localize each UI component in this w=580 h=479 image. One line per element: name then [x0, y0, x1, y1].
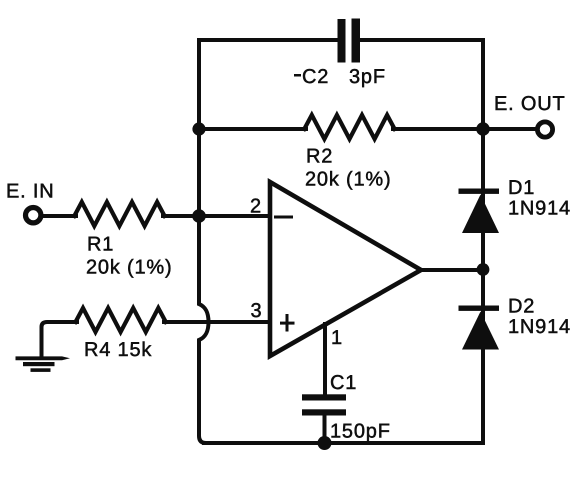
wire C1 to bottom rail	[323, 415, 327, 443]
wire op-amp output	[419, 268, 483, 272]
capacitor C1	[302, 394, 346, 415]
svg-text:1N914: 1N914	[508, 316, 571, 338]
wire E.OUT	[483, 127, 536, 131]
op-amp U1 triangle	[270, 182, 421, 356]
wire R2 to output node	[393, 127, 483, 131]
wire op-amp pin 1 to C1	[323, 324, 327, 395]
wire E.IN to R1	[43, 214, 76, 218]
wire top rail right segment	[360, 38, 483, 42]
plus sign non-inverting input	[280, 314, 295, 332]
wire R4 to op-amp pin 3	[164, 320, 270, 324]
wire R2 feedback wire	[199, 127, 306, 131]
wire ground riser to R4	[42, 322, 78, 357]
node junction dot E.OUT	[476, 122, 490, 136]
minus sign inverting input	[274, 216, 293, 219]
node junction dot output	[477, 263, 490, 276]
wire bottom rail	[204, 441, 483, 445]
svg-text:3pF: 3pF	[349, 66, 386, 88]
svg-text:D2: D2	[508, 296, 535, 318]
resistor R2	[304, 115, 394, 139]
svg-text:R4 15k: R4 15k	[84, 339, 152, 361]
svg-text:E. OUT: E. OUT	[494, 93, 565, 115]
diode D2	[459, 306, 500, 350]
svg-text:20k (1%): 20k (1%)	[305, 169, 391, 191]
svg-text:1: 1	[331, 327, 343, 349]
wire top rail left segment	[199, 38, 338, 42]
stray mark dash left of C2	[294, 74, 301, 77]
resistor R1	[74, 202, 164, 226]
svg-text:1N914: 1N914	[508, 198, 571, 220]
svg-text:150pF: 150pF	[330, 421, 391, 443]
resistor R4	[76, 308, 166, 332]
node junction dot R2 left	[192, 122, 205, 135]
terminal E.OUT circle	[537, 122, 552, 137]
node junction dot C1 bottom	[318, 436, 332, 450]
diode D1	[459, 189, 500, 234]
node junction dot inverting input	[192, 209, 206, 223]
svg-text:C1: C1	[330, 372, 357, 394]
svg-text:20k (1%): 20k (1%)	[86, 257, 172, 279]
wire left vertical with hop over pin3 wire and rounded corner to bottom rail	[199, 40, 209, 443]
wire R1 to op-amp pin 2	[163, 214, 270, 218]
ground	[16, 356, 71, 372]
svg-text:D1: D1	[508, 177, 535, 199]
svg-text:3: 3	[251, 300, 263, 322]
svg-text:R2: R2	[306, 146, 333, 168]
svg-text:R1: R1	[87, 234, 114, 256]
svg-text:E. IN: E. IN	[6, 181, 54, 203]
svg-text:2: 2	[250, 196, 262, 218]
svg-text:C2: C2	[302, 66, 329, 88]
capacitor C2	[338, 19, 361, 63]
wire right vertical	[481, 40, 485, 443]
terminal E.IN circle	[26, 208, 41, 223]
